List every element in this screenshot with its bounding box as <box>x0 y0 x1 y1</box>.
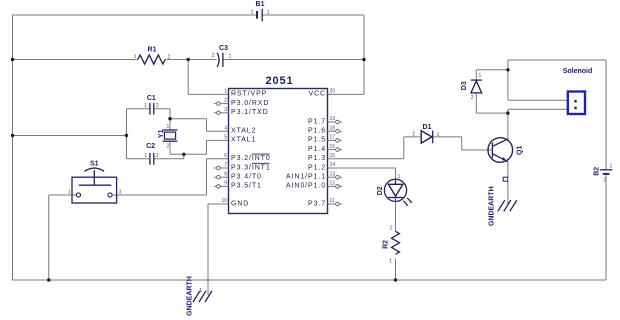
solenoid connector <box>563 68 593 114</box>
svg-text:18: 18 <box>330 125 336 131</box>
svg-text:14: 14 <box>330 162 336 168</box>
pin 17 P1.5 <box>308 135 342 144</box>
diode D3 <box>461 73 482 101</box>
battery B1 <box>251 1 270 21</box>
node crystal bottom junction <box>182 153 185 156</box>
ground GNDEARTH under IC <box>186 276 212 316</box>
wire S1 left drop to ground rail <box>48 195 50 280</box>
svg-text:C2: C2 <box>146 143 155 150</box>
wire drop to Q1 base row <box>461 137 463 150</box>
emitter pad <box>503 177 508 181</box>
wire C2 right lead <box>155 158 184 160</box>
wire Q1 emitter vertical <box>507 162 509 178</box>
svg-text:Solenoid: Solenoid <box>563 68 593 75</box>
svg-text:11: 11 <box>330 198 335 204</box>
diode D1 <box>412 124 439 143</box>
svg-text:20: 20 <box>330 89 336 95</box>
wire top rail right of B1 <box>263 14 364 16</box>
node RST junction <box>187 58 190 61</box>
wire D1 cathode lead <box>432 136 461 138</box>
svg-text:3: 3 <box>119 189 122 195</box>
node crystal left junction <box>125 134 128 137</box>
wire S1 right lead <box>112 194 207 196</box>
svg-text:2: 2 <box>390 226 393 232</box>
wire crystal bottom horizontal <box>170 153 207 155</box>
wire D2 cathode to R2 <box>395 198 397 232</box>
wire C1 to crystal top <box>169 109 171 130</box>
svg-text:B2: B2 <box>594 167 601 176</box>
wire crystal left vertical <box>126 109 128 159</box>
svg-text:1: 1 <box>134 54 137 60</box>
wire crystal bottom lead <box>169 141 171 154</box>
pin 7 P3.3/INT1 <box>214 162 271 171</box>
svg-text:1: 1 <box>610 163 613 169</box>
svg-text:2: 2 <box>251 9 254 15</box>
svg-text:2: 2 <box>224 98 227 104</box>
wire crystal ground horizontal <box>13 135 127 137</box>
resistor R2 <box>382 226 399 265</box>
wire P1.3 pin15 lead <box>328 158 404 160</box>
wire reset row left segment <box>13 59 138 61</box>
wire C1 right lead <box>155 108 171 110</box>
pin 2 P3.0/RXD <box>214 98 269 107</box>
capacitor C2 <box>144 143 159 165</box>
LED D2 <box>377 174 413 207</box>
svg-text:P3.7: P3.7 <box>308 200 326 207</box>
wire VCC node to pin20 <box>328 93 365 95</box>
wire XTAL2 vertical <box>206 119 208 131</box>
svg-text:1: 1 <box>199 288 202 294</box>
svg-text:1: 1 <box>68 189 71 195</box>
node left rail crystal tap <box>11 134 14 137</box>
svg-text:R2: R2 <box>382 240 389 249</box>
svg-text:AIN0/P1.0: AIN0/P1.0 <box>286 183 326 190</box>
svg-text:8: 8 <box>224 171 227 177</box>
svg-text:2: 2 <box>167 143 170 149</box>
wire D3 anode horizontal <box>476 112 508 114</box>
svg-text:GNDEARTH: GNDEARTH <box>186 276 193 316</box>
pin 11 P3.7 <box>308 198 342 207</box>
wire XTAL1 to pin5 <box>207 139 229 141</box>
pin 5 XTAL1 <box>224 135 256 144</box>
wire C1 left lead <box>127 108 150 110</box>
svg-text:3: 3 <box>224 107 227 113</box>
wire right rail to B2 <box>605 60 607 169</box>
wire solenoid plus vertical <box>507 60 509 100</box>
svg-text:P3.4/T0: P3.4/T0 <box>231 174 262 181</box>
svg-text:GNDEARTH: GNDEARTH <box>489 186 496 226</box>
svg-text:Y1: Y1 <box>158 129 165 138</box>
svg-text:16: 16 <box>330 144 336 150</box>
capacitor C1 <box>144 95 159 114</box>
node D3 anode junction <box>506 111 509 114</box>
wire C2 left lead <box>127 158 150 160</box>
svg-text:RST/VPP: RST/VPP <box>231 91 267 98</box>
wire S1 rise to pin6 <box>206 159 208 195</box>
svg-text:P1.5: P1.5 <box>308 137 326 144</box>
node R2 ground junction <box>394 278 397 281</box>
svg-text:C1: C1 <box>147 95 156 102</box>
pin 9 P3.5/T1 <box>214 181 262 190</box>
wire to P3.2 pin6 <box>207 158 229 160</box>
svg-text:1: 1 <box>389 259 392 265</box>
svg-text:2: 2 <box>156 103 159 109</box>
resistor R1 <box>134 47 171 64</box>
svg-text:P1.2: P1.2 <box>308 164 326 171</box>
svg-text:5: 5 <box>224 135 227 141</box>
svg-text:P1.7: P1.7 <box>308 118 326 125</box>
svg-text:15: 15 <box>330 153 336 159</box>
pin 20 VCC <box>309 89 336 98</box>
svg-text:1: 1 <box>437 132 440 138</box>
wire RST branch to pin1 <box>188 93 228 95</box>
svg-text:R1: R1 <box>148 47 157 54</box>
wire GND pin10 stub <box>208 203 229 205</box>
wire C3 to VCC node segment <box>224 59 365 61</box>
svg-text:2: 2 <box>603 178 606 184</box>
wire bottom ground rail <box>13 279 607 281</box>
svg-text:P1.3: P1.3 <box>308 155 326 162</box>
node left rail reset tap <box>11 58 14 61</box>
pin 15 P1.3 <box>308 153 335 162</box>
pin 13 AIN1/P1.1 <box>286 171 342 180</box>
svg-text:P3.3/INT1: P3.3/INT1 <box>231 164 271 171</box>
svg-text:D2: D2 <box>377 186 384 195</box>
svg-text:1: 1 <box>267 10 270 16</box>
wire R1 to C3 segment <box>165 59 216 61</box>
ground GNDEARTH under Q1 <box>489 186 517 226</box>
svg-text:Q1: Q1 <box>517 146 524 155</box>
wire far-left vertical rail <box>12 15 14 280</box>
wire B1 plus drop to VCC node <box>363 15 365 94</box>
pin 10 GND <box>221 198 249 207</box>
svg-text:2: 2 <box>412 132 415 138</box>
svg-text:13: 13 <box>330 171 336 177</box>
pin 3 P3.1/TXD <box>214 107 269 116</box>
wire RST branch vertical <box>187 60 189 95</box>
svg-text:P3.2/INT0: P3.2/INT0 <box>231 155 271 162</box>
svg-text:17: 17 <box>330 135 336 141</box>
svg-text:1: 1 <box>224 89 227 95</box>
wire XTAL1 vertical <box>206 140 208 154</box>
wire R2 to ground rail <box>395 259 397 280</box>
wire Q1 collector vertical <box>507 109 509 139</box>
svg-text:2: 2 <box>168 54 171 60</box>
svg-text:P3.5/T1: P3.5/T1 <box>231 183 262 190</box>
svg-text:10: 10 <box>221 198 227 204</box>
svg-text:6: 6 <box>224 153 227 159</box>
svg-text:C3: C3 <box>219 45 228 52</box>
svg-text:D1: D1 <box>423 124 432 131</box>
svg-text:1: 1 <box>479 73 482 79</box>
svg-text:1: 1 <box>229 53 232 59</box>
wire drop to D2 anode <box>395 168 397 180</box>
pin 12 AIN0/P1.0 <box>286 181 342 190</box>
svg-text:1: 1 <box>144 153 147 159</box>
svg-text:2: 2 <box>212 53 215 59</box>
wire to Q1 base <box>462 149 493 151</box>
wire to D1 anode <box>404 136 421 138</box>
svg-text:P3.1/TXD: P3.1/TXD <box>231 109 269 116</box>
pin 6 P3.2/INT0 <box>224 153 270 162</box>
pin 18 P1.6 <box>308 125 342 134</box>
node VCC junction <box>362 58 365 61</box>
svg-text:VCC: VCC <box>309 91 326 98</box>
pin 16 P1.4 <box>308 144 342 153</box>
wire XTAL2 to pin4 <box>207 130 229 132</box>
node S1 ground junction <box>47 278 50 281</box>
svg-text:GND: GND <box>231 200 249 207</box>
wire D3 cathode lead <box>475 70 477 80</box>
op-amp 2051 IC U1 <box>229 75 328 214</box>
pin 4 XTAL2 <box>224 125 256 134</box>
pin 19 P1.7 <box>308 116 342 125</box>
svg-text:1: 1 <box>167 124 170 130</box>
switch S1 <box>68 161 122 203</box>
capacitor C3 <box>212 45 232 67</box>
svg-text:XTAL1: XTAL1 <box>231 137 256 144</box>
wire C2 jog up to crystal net <box>183 154 185 159</box>
wire D3 anode lead <box>475 93 477 113</box>
svg-text:P3.0/RXD: P3.0/RXD <box>231 100 269 107</box>
svg-text:AIN1/P1.1: AIN1/P1.1 <box>286 174 326 181</box>
svg-text:2: 2 <box>471 95 474 101</box>
svg-text:XTAL2: XTAL2 <box>231 128 256 135</box>
svg-text:12: 12 <box>330 181 336 187</box>
wire solenoid top rail <box>508 59 606 61</box>
svg-text:4: 4 <box>224 125 227 131</box>
wire P1.2 pin14 lead <box>328 167 396 169</box>
svg-text:1: 1 <box>144 103 147 109</box>
svg-text:19: 19 <box>330 116 336 122</box>
svg-text:P1.4: P1.4 <box>308 146 326 153</box>
node D3 cathode junction <box>506 68 509 71</box>
svg-text:P1.6: P1.6 <box>308 128 326 135</box>
wire emitter to earth <box>507 181 509 205</box>
wire solenoid bottom terminal <box>508 108 568 110</box>
wire top rail left of B1 <box>13 14 257 16</box>
svg-text:2: 2 <box>156 153 159 159</box>
wire to solenoid top terminal <box>508 99 568 101</box>
wire P1.3 rise <box>403 137 405 159</box>
wire S1 left lead <box>49 194 77 196</box>
pin 8 P3.4/T0 <box>214 171 262 180</box>
svg-text:B1: B1 <box>256 1 265 8</box>
wire D3 cathode horizontal <box>476 69 508 71</box>
svg-text:1: 1 <box>398 174 401 180</box>
svg-text:7: 7 <box>224 162 227 168</box>
wire B2 to ground rail <box>605 175 607 280</box>
svg-text:D3: D3 <box>461 81 468 90</box>
crystal Y1 <box>158 124 178 149</box>
svg-text:2051: 2051 <box>265 75 293 87</box>
pin 1 RST/VPP <box>224 89 267 98</box>
svg-text:S1: S1 <box>90 161 99 168</box>
node crystal top junction <box>168 117 171 120</box>
svg-text:9: 9 <box>224 181 227 187</box>
pin 14 P1.2 <box>308 162 335 171</box>
wire GND drop to earth <box>207 204 209 295</box>
wire node A to XTAL2 branch <box>170 118 207 120</box>
battery B2 <box>594 163 613 183</box>
transistor Q1 <box>488 138 524 163</box>
